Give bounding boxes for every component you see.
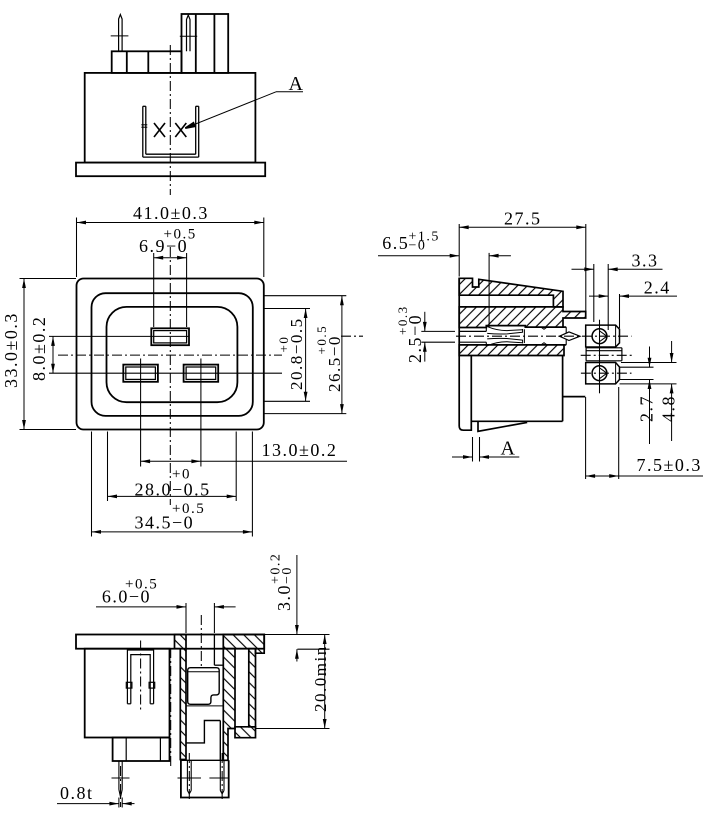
tick on left shroud wall [141,124,147,126]
svg-text:7.5±0.3: 7.5±0.3 [637,455,702,475]
dim 41.0 line [77,222,264,224]
X mark 1 [154,123,165,137]
28.0 extension lines [107,432,109,502]
upper solder contact [586,325,620,347]
svg-text:+0: +0 [276,336,291,353]
dim 34.5 line [92,531,253,533]
6.9 extension lines [153,253,155,327]
centerline horizontal (front view) [58,354,282,356]
svg-text:20.0min: 20.0min [311,645,330,712]
dim 26.5 line [341,296,343,414]
svg-text:A: A [501,438,517,460]
bottom view center lines [121,615,223,807]
svg-text:3.0: 3.0 [274,584,294,611]
svg-text:8.0±0.2: 8.0±0.2 [29,316,49,381]
hatched roof + slot right wall [459,278,563,307]
33.0 extension lines [20,278,77,280]
right slot [184,365,219,382]
svg-text:+0: +0 [172,467,191,483]
flat tab edge-on between contacts [586,348,622,361]
svg-text:28.0−0.5: 28.0−0.5 [135,480,211,500]
slot center verticals (13.0 extensions) [140,359,142,467]
flange bottom [459,356,471,431]
flange front face [458,278,460,426]
spring contact jaws [487,327,547,346]
inner socket face rounded rect [107,307,238,402]
svg-text:27.5: 27.5 [504,209,542,229]
bottom view dimension lines [57,555,325,804]
pin P2 (top view) [187,15,191,51]
hatched flange right + lip [223,635,264,654]
bottom view arrows [177,605,187,609]
top slot (earth pin) [151,328,189,345]
svg-text:4.8: 4.8 [659,395,679,422]
base plate [76,163,265,177]
side view dimension lines [378,227,703,476]
socket fork contact (bottom view) [126,650,154,704]
hatched central right wall [223,649,235,761]
41.0 extension lines [76,218,78,278]
terminal tab row [112,51,182,73]
connector body (top view) [85,73,256,163]
side view center lines [341,320,634,394]
dim 20.8 line [305,309,307,402]
side view texts [382,209,702,476]
hatched lower band [459,345,564,356]
front hole edges [459,330,486,332]
X mark 2 [175,123,186,137]
upper cavity contact (rounded, with notch) [188,668,220,705]
dim 33.0 line [23,279,25,430]
svg-text:2.7: 2.7 [637,395,657,422]
middle rounded rect [92,293,253,416]
svg-text:+0.5: +0.5 [172,501,205,517]
contact pocket tube [563,326,566,328]
flange outline (bottom view) [76,635,264,649]
large block [182,14,229,73]
side view extension lines [421,224,676,479]
left body [85,649,170,738]
U-shaped shroud [143,106,199,157]
centerline vertical (front view) [169,247,171,505]
svg-text:33.0±0.3: 33.0±0.3 [1,312,21,388]
lower solder contact [586,363,620,384]
dim 8.0 line [52,336,54,373]
side view arrows [459,225,469,229]
svg-text:+0.5: +0.5 [125,577,158,593]
svg-text:6.5: 6.5 [382,233,409,253]
body lower step [113,738,170,762]
svg-text:+0.3: +0.3 [395,305,410,335]
dim 28.0 line [108,495,237,497]
svg-text:13.0±0.2: 13.0±0.2 [262,440,338,460]
body bottom edge [471,420,562,422]
svg-text:0.8t: 0.8t [60,783,94,803]
hatched middle block [459,307,586,328]
left solder pin (bottom view) [112,761,130,797]
outer housing rounded rect [77,279,264,430]
svg-text:−0: −0 [409,239,427,254]
svg-text:A: A [289,73,305,95]
arrows front view [77,221,87,225]
bottom pin block [180,760,228,797]
pin P1 (top view) [119,15,123,52]
centerline (top view) [169,45,171,195]
hatched left wall + flange strip [175,635,187,760]
block pin B [209,761,229,794]
svg-text:−0: −0 [280,566,295,584]
block pin A [178,761,202,794]
bottom view texts [60,553,330,803]
hatched far right wall [249,649,256,727]
26.5 extension lines [264,295,346,297]
dim 6.9 line [154,257,187,259]
leader to detail A [185,92,303,128]
svg-text:+0.5: +0.5 [164,227,197,243]
bottom view extension lines [119,603,330,808]
svg-text:41.0±0.3: 41.0±0.3 [133,203,209,223]
svg-text:20.8−0.5: 20.8−0.5 [287,317,306,390]
hatched bottom slab [235,727,256,738]
line through bottom slots / 8.0 extension [49,372,282,374]
svg-text:2.4: 2.4 [644,278,671,298]
lower cavity contact (stepped) [186,721,221,761]
pin tip rhombus [560,332,581,341]
contact boss bottom [563,396,586,398]
svg-text:3.3: 3.3 [632,251,659,271]
left slot [123,365,158,382]
34.5 extension lines [91,432,93,537]
bottom skirt wedge [478,421,527,431]
svg-text:+0.5: +0.5 [314,325,329,355]
body back face [562,356,564,422]
line through top slot / 8.0 extension [49,335,189,337]
20.8 extension lines [264,308,310,310]
dim 13.0 line [141,460,347,462]
channel mouth step [213,635,215,666]
crimp nicks on tube [541,327,547,329]
texts front view [1,203,344,533]
